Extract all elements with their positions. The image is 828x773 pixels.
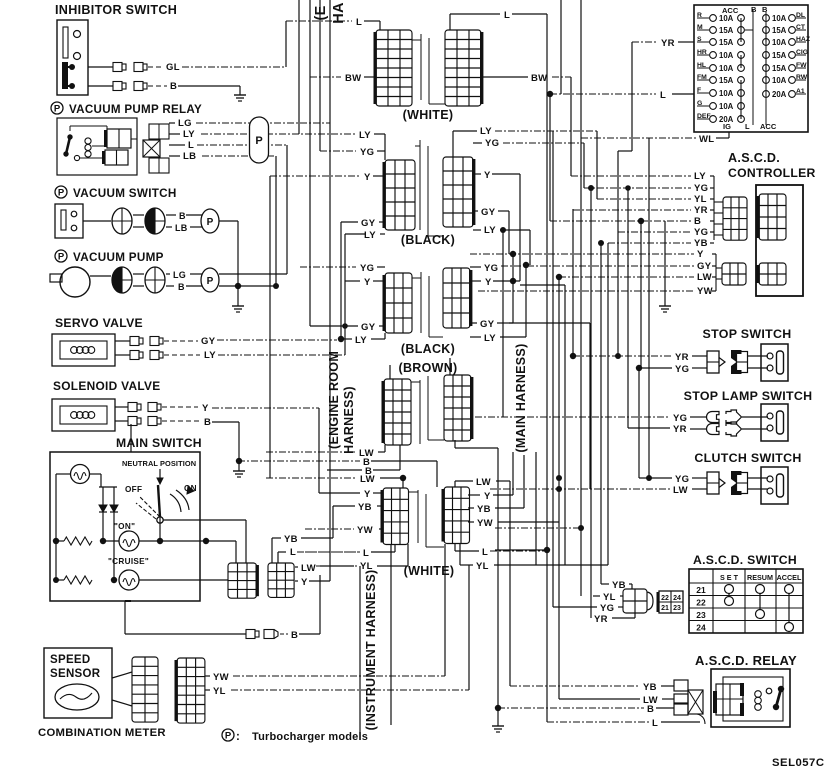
riser x565 to YLrow bbox=[520, 285, 565, 565]
ASCD controller grid top bbox=[757, 194, 787, 240]
svg-text:(E: (E bbox=[313, 5, 329, 20]
svg-text:IG: IG bbox=[723, 122, 731, 131]
wire YG stop lamp switch bbox=[475, 413, 768, 424]
svg-text:(ENGINE ROOM: (ENGINE ROOM bbox=[327, 351, 341, 449]
riser x561 top to Lfuse bbox=[560, 0, 562, 94]
svg-text:VACUUM PUMP RELAY: VACUUM PUMP RELAY bbox=[69, 103, 202, 116]
svg-text:GY: GY bbox=[361, 322, 376, 333]
svg-text:10A: 10A bbox=[772, 14, 787, 23]
svg-text:LG: LG bbox=[178, 118, 192, 129]
fuse box bbox=[694, 5, 810, 132]
svg-text:YG: YG bbox=[673, 413, 687, 424]
svg-text:GY: GY bbox=[201, 336, 216, 347]
P circle vacuum switch bbox=[201, 209, 219, 233]
vacuum pump relay connector bbox=[143, 124, 169, 173]
svg-text:Y: Y bbox=[364, 172, 371, 183]
connector grid (BLACK)1 right bbox=[443, 157, 475, 227]
svg-text:(BLACK): (BLACK) bbox=[401, 342, 455, 356]
svg-text:L: L bbox=[356, 17, 362, 28]
wire flank instrument-harness left bbox=[359, 566, 361, 740]
svg-text:21: 21 bbox=[661, 605, 669, 612]
label SOLENOID VALVE bbox=[53, 379, 160, 393]
svg-text:YW: YW bbox=[213, 672, 229, 683]
svg-text:YB: YB bbox=[284, 534, 298, 545]
wire servo-LY riser bbox=[344, 281, 346, 355]
label STOP SWITCH bbox=[703, 327, 792, 341]
svg-text:LY: LY bbox=[183, 129, 195, 140]
wire BROWN right grid top stub bbox=[449, 358, 451, 375]
svg-text:MAIN SWITCH: MAIN SWITCH bbox=[116, 436, 202, 450]
label ON lamp bbox=[114, 522, 135, 531]
svg-text:L: L bbox=[290, 547, 296, 558]
riser LW x559 bbox=[556, 274, 562, 699]
wire lever to connector bbox=[160, 517, 246, 563]
wire LB relay bbox=[169, 151, 276, 162]
vacuum pump relay K1 box bbox=[57, 118, 137, 175]
svg-text:LY: LY bbox=[694, 171, 706, 182]
wire top L riser bbox=[546, 14, 548, 550]
svg-text:LW: LW bbox=[360, 474, 375, 485]
ASCD relay K2 box bbox=[711, 669, 790, 727]
wire riser Y-ms bbox=[329, 470, 331, 581]
svg-text:Y: Y bbox=[484, 170, 491, 181]
wire GY black1 left bbox=[341, 218, 385, 229]
svg-text:A.S.C.D.: A.S.C.D. bbox=[728, 151, 780, 165]
wire YB white2 right bbox=[468, 455, 524, 515]
wire BW left bbox=[310, 73, 376, 84]
svg-text:CONTROLLER: CONTROLLER bbox=[728, 166, 816, 180]
wire YW meter bbox=[205, 544, 445, 683]
svg-text:23: 23 bbox=[673, 605, 681, 612]
harness label INSTRUMENT bbox=[364, 570, 378, 731]
wire YR bend bbox=[615, 151, 632, 359]
svg-text:NEUTRAL POSITION: NEUTRAL POSITION bbox=[122, 459, 196, 468]
svg-text:YG: YG bbox=[694, 227, 708, 238]
wire LY black1 label-left bbox=[359, 130, 385, 160]
wire B ascd relay bbox=[495, 704, 674, 715]
ground G3 (solenoid B) bbox=[233, 462, 245, 477]
svg-text:YL: YL bbox=[213, 686, 226, 697]
riser x536 flank bbox=[535, 452, 537, 565]
label (WHITE) bottom bbox=[404, 564, 455, 578]
wire YG black1 left bbox=[320, 147, 385, 158]
connector grid main-switch right bbox=[268, 563, 294, 597]
svg-text:YG: YG bbox=[485, 138, 499, 149]
svg-text:21: 21 bbox=[696, 585, 706, 595]
svg-text:15A: 15A bbox=[719, 26, 734, 35]
svg-text:22: 22 bbox=[696, 598, 706, 608]
svg-text:15A: 15A bbox=[719, 38, 734, 47]
svg-text:L: L bbox=[504, 10, 510, 21]
svg-text:L: L bbox=[745, 122, 750, 131]
wire YG black1 right bbox=[473, 138, 584, 149]
svg-text:LY: LY bbox=[364, 230, 376, 241]
wire Y solenoid bbox=[115, 403, 319, 415]
svg-text:B: B bbox=[179, 211, 186, 221]
wire LW brown 2 bbox=[266, 474, 406, 488]
label SPEED SENSOR box bbox=[44, 648, 112, 718]
wire GY black2 right bbox=[470, 319, 513, 330]
wire LW main-switch bbox=[295, 563, 354, 574]
svg-text:A.S.C.D. SWITCH: A.S.C.D. SWITCH bbox=[693, 553, 797, 567]
svg-text:YW: YW bbox=[477, 518, 493, 529]
wire YB white2 left bbox=[333, 502, 383, 513]
main switch lever bbox=[136, 485, 194, 523]
label VACUUM SWITCH bbox=[55, 186, 177, 200]
svg-text:YG: YG bbox=[360, 263, 374, 274]
connector grid (BLACK)2 right bbox=[443, 268, 472, 328]
svg-text:SOLENOID VALVE: SOLENOID VALVE bbox=[53, 379, 160, 393]
vacuum pump connectors bbox=[112, 267, 165, 293]
wire B from inhibitor switch to ground bbox=[88, 81, 240, 92]
wire B riser + ground bbox=[455, 440, 498, 708]
wire riser GY1-LY2 bbox=[340, 222, 342, 339]
svg-text:LY: LY bbox=[480, 126, 492, 137]
svg-text:"ON": "ON" bbox=[114, 522, 135, 531]
svg-text:S E T: S E T bbox=[720, 573, 739, 582]
wire YW white2 left bbox=[305, 525, 383, 536]
main switch left wiring bbox=[53, 474, 118, 583]
wire LB vacuum switch bbox=[133, 223, 204, 233]
wire YL ascd switch bbox=[593, 592, 623, 603]
wire YW white2 right bbox=[468, 518, 559, 529]
svg-text:Y: Y bbox=[364, 489, 371, 500]
wire Y black1 right bbox=[473, 170, 520, 281]
label ASCD SWITCH bbox=[693, 553, 797, 567]
lamp CRUISE bbox=[119, 570, 139, 590]
wire LY relay bbox=[169, 129, 356, 140]
junction dot pump B / switch B bbox=[219, 283, 279, 289]
clutch switch SW5 bbox=[707, 467, 788, 504]
lamp ON bbox=[119, 531, 139, 551]
riser x553 LY to ascd YG bbox=[552, 131, 554, 607]
svg-text:YR: YR bbox=[594, 614, 608, 625]
stop switch SW3 bbox=[707, 344, 788, 381]
svg-text:LY: LY bbox=[484, 333, 496, 344]
ground G5 (bottom center) bbox=[492, 708, 504, 732]
wire B brown 2 bbox=[327, 445, 400, 477]
svg-text:YG: YG bbox=[675, 474, 689, 485]
wire sensor to meter bbox=[112, 672, 132, 706]
svg-text:B: B bbox=[762, 5, 768, 14]
svg-text:YW: YW bbox=[697, 286, 713, 297]
svg-text:15A: 15A bbox=[772, 51, 787, 60]
label NEUTRAL POSITION bbox=[122, 459, 196, 468]
wires to ASCD controller upper (LY YG YL YR B YG YB) bbox=[550, 171, 723, 249]
svg-text:L: L bbox=[363, 548, 369, 559]
wire GY black2 left bbox=[310, 322, 385, 333]
svg-text:B: B bbox=[170, 81, 177, 92]
riser x590 GY2right to clutchLW bbox=[509, 323, 590, 489]
svg-text:GY: GY bbox=[480, 319, 495, 330]
wire L-fuse riser bbox=[549, 94, 551, 221]
riser YL x597 bbox=[596, 131, 598, 199]
wire YG clutch switch bbox=[639, 368, 768, 485]
wire B vacuum pump bbox=[133, 282, 204, 292]
label COMBINATION METER bbox=[38, 727, 166, 739]
wire LW white2 right bbox=[455, 477, 510, 488]
svg-text:BW: BW bbox=[345, 73, 361, 84]
wire YR stop switch bbox=[570, 352, 768, 363]
P capsule (turbo) on relay wires bbox=[250, 117, 269, 163]
connector grid (BLACK)2 left bbox=[383, 273, 413, 333]
svg-text:RESUM: RESUM bbox=[747, 573, 773, 582]
connector grid main-switch left bbox=[228, 563, 259, 598]
servo valve box bbox=[52, 334, 115, 366]
svg-text:Y: Y bbox=[202, 403, 209, 414]
ASCD controller box U1 bbox=[756, 185, 803, 296]
wire Y black2 right bbox=[470, 277, 520, 288]
svg-text:Turbocharger models: Turbocharger models bbox=[252, 731, 368, 743]
wire BW-right riser bbox=[570, 77, 572, 176]
wire L top-right bbox=[450, 10, 547, 30]
svg-text:ACC: ACC bbox=[722, 6, 739, 15]
svg-text:P: P bbox=[207, 276, 214, 287]
svg-text:B: B bbox=[291, 630, 298, 641]
wire Y black1 left bbox=[270, 172, 385, 183]
svg-text:GL: GL bbox=[166, 62, 180, 73]
svg-text:LW: LW bbox=[697, 272, 712, 283]
riser GY x526 bbox=[523, 262, 529, 337]
svg-text:YG: YG bbox=[694, 183, 708, 194]
svg-text:B: B bbox=[751, 5, 757, 14]
wire YR ascd switch bbox=[594, 613, 635, 625]
svg-text:YR: YR bbox=[694, 205, 708, 216]
junction dot B row bbox=[236, 458, 242, 464]
svg-text:LY: LY bbox=[204, 350, 216, 361]
wire YG stop switch bbox=[636, 364, 768, 375]
riser Y x513 bbox=[510, 251, 516, 323]
svg-text:10A: 10A bbox=[719, 64, 734, 73]
wire YR stop lamp switch bbox=[628, 424, 768, 435]
svg-text:YR: YR bbox=[675, 352, 689, 363]
riser YG2 x584 bbox=[583, 143, 585, 188]
wire L row to riser bbox=[495, 549, 547, 551]
svg-text:YB: YB bbox=[643, 682, 657, 693]
label VACUUM PUMP RELAY bbox=[51, 102, 202, 116]
svg-text:VACUUM PUMP: VACUUM PUMP bbox=[73, 251, 164, 264]
wire LW ascd relay bbox=[559, 695, 674, 706]
wire vacuum switch to ground bus bbox=[219, 221, 238, 285]
svg-text:YL: YL bbox=[694, 194, 707, 205]
wire flank instrument-harness right bbox=[390, 544, 392, 725]
inhibitor switch SW1 bbox=[57, 20, 88, 95]
wire riser into box top bbox=[130, 424, 132, 452]
svg-text:LY: LY bbox=[484, 225, 496, 236]
svg-text:15A: 15A bbox=[772, 64, 787, 73]
wire pump LG to relay-L riser bbox=[219, 273, 287, 275]
svg-text:10A: 10A bbox=[719, 14, 734, 23]
svg-text:10A: 10A bbox=[719, 51, 734, 60]
label (BROWN) bbox=[398, 361, 457, 375]
wire YR fuse bbox=[632, 38, 694, 151]
wire L white2 right bbox=[455, 544, 547, 558]
wire L top-left bbox=[286, 17, 380, 30]
svg-text:B: B bbox=[178, 282, 185, 292]
svg-text:20A: 20A bbox=[772, 90, 787, 99]
svg-text:10A: 10A bbox=[719, 89, 734, 98]
vacuum switch SW2 box bbox=[55, 204, 83, 238]
speed sensor symbol bbox=[55, 684, 99, 710]
wire YB ascd switch bbox=[601, 580, 632, 591]
svg-text:P: P bbox=[58, 252, 65, 263]
wire B to ground bbox=[638, 218, 665, 297]
connector grid (BROWN) right bbox=[444, 375, 473, 441]
riser B-YG x641 bbox=[640, 221, 642, 368]
svg-text:COMBINATION METER: COMBINATION METER bbox=[38, 727, 166, 739]
wire L fuse bbox=[547, 90, 694, 101]
label CRUISE bbox=[108, 557, 149, 566]
connector grid (BROWN) left bbox=[382, 379, 412, 445]
svg-text:B: B bbox=[694, 216, 701, 227]
svg-text:STOP SWITCH: STOP SWITCH bbox=[703, 327, 792, 341]
svg-text:ACCEL: ACCEL bbox=[777, 573, 802, 582]
svg-text:A.S.C.D. RELAY: A.S.C.D. RELAY bbox=[695, 653, 797, 668]
ASCD switch pin table bbox=[657, 591, 684, 613]
wire LG relay bbox=[169, 118, 330, 129]
label STOP LAMP SWITCH bbox=[684, 389, 813, 403]
svg-text:LW: LW bbox=[673, 485, 688, 496]
svg-text:P: P bbox=[58, 188, 65, 199]
svg-text:L: L bbox=[188, 140, 194, 151]
label MAIN SWITCH bbox=[116, 436, 202, 450]
ground G2 (vacuum pump) bbox=[232, 286, 244, 312]
wire GY black1 right bbox=[473, 207, 509, 254]
svg-text:LG: LG bbox=[173, 270, 186, 280]
wire LY black1 right bbox=[453, 126, 597, 157]
harness label MAIN HARNESS bbox=[514, 343, 528, 452]
connector grid combination meter right bbox=[175, 658, 205, 723]
label SERVO VALVE bbox=[55, 316, 143, 330]
svg-text:LW: LW bbox=[301, 563, 316, 574]
wire LG vacuum pump bbox=[90, 270, 204, 280]
riser x649 WL bbox=[646, 138, 652, 481]
svg-text:VACUUM SWITCH: VACUUM SWITCH bbox=[73, 187, 177, 200]
wire lamp ON row bbox=[102, 538, 236, 563]
wire B vacuum switch bbox=[83, 211, 204, 221]
svg-text:SEL057C: SEL057C bbox=[772, 757, 824, 769]
svg-text:(WHITE): (WHITE) bbox=[404, 564, 455, 578]
svg-text:STOP LAMP SWITCH: STOP LAMP SWITCH bbox=[684, 389, 813, 403]
vertical harness fragment (E bbox=[313, 5, 329, 20]
svg-text:L: L bbox=[660, 90, 666, 101]
svg-text:10A: 10A bbox=[772, 38, 787, 47]
label (BLACK) 2 bbox=[401, 342, 455, 356]
svg-text:GY: GY bbox=[697, 261, 712, 272]
wire B bottom bbox=[125, 575, 320, 641]
wire riser x330 from top (relay LG) bbox=[329, 0, 331, 470]
riser YR x573 bbox=[572, 209, 574, 356]
svg-text:B: B bbox=[647, 704, 654, 715]
wire Y black2 left bbox=[345, 277, 385, 288]
wire YB ascd relay bbox=[510, 682, 674, 693]
ground G1 (inhibitor B) bbox=[234, 86, 246, 101]
wire LY black1 right low bbox=[473, 225, 530, 265]
connector grid (WHITE)2 left bbox=[381, 488, 409, 545]
connector grid (WHITE)2 right bbox=[442, 487, 470, 544]
svg-text:ACC: ACC bbox=[760, 122, 777, 131]
svg-text:(WHITE): (WHITE) bbox=[403, 108, 454, 122]
svg-text:HARNESS): HARNESS) bbox=[342, 386, 356, 454]
svg-text:YB: YB bbox=[694, 238, 708, 249]
label ON top bbox=[184, 484, 197, 493]
svg-text:YG: YG bbox=[600, 603, 614, 614]
wire L relay bbox=[169, 140, 287, 151]
svg-text:24: 24 bbox=[696, 623, 706, 633]
label (WHITE) top bbox=[403, 108, 454, 122]
wire WL bbox=[581, 132, 729, 145]
wire YG ascd switch bbox=[553, 603, 623, 614]
wire YL meter bbox=[205, 565, 469, 697]
wire YG black2 left bbox=[300, 263, 385, 274]
svg-text:LB: LB bbox=[175, 223, 188, 233]
neutral arrow bbox=[157, 469, 163, 484]
svg-text:LW: LW bbox=[476, 477, 491, 488]
svg-text:(INSTRUMENT HARNESS): (INSTRUMENT HARNESS) bbox=[364, 570, 378, 731]
ASCD switch table SW6 bbox=[689, 569, 803, 633]
svg-text:SENSOR: SENSOR bbox=[50, 668, 101, 680]
vertical harness fragment HA bbox=[331, 2, 347, 24]
riser x601 to ascd YB bbox=[598, 240, 604, 584]
svg-text:YG: YG bbox=[360, 147, 374, 158]
svg-text:B: B bbox=[204, 417, 211, 428]
svg-text:10A: 10A bbox=[719, 102, 734, 111]
riser YB x510 bbox=[509, 481, 511, 686]
svg-text:YG: YG bbox=[484, 263, 498, 274]
connector grid (WHITE) top left bbox=[374, 30, 413, 106]
svg-text:24: 24 bbox=[673, 595, 681, 602]
vacuum switch connectors bbox=[112, 208, 165, 234]
P circle vacuum pump bbox=[201, 268, 219, 292]
svg-text:Y: Y bbox=[301, 577, 308, 588]
svg-text:L: L bbox=[652, 718, 658, 729]
legend P turbocharger bbox=[222, 729, 368, 743]
label SEL057C bbox=[772, 757, 824, 769]
svg-text:OFF: OFF bbox=[125, 485, 142, 494]
svg-text:22: 22 bbox=[661, 595, 669, 602]
wire node GL riser bbox=[285, 21, 287, 67]
svg-text:Y: Y bbox=[484, 491, 491, 502]
wire YB main-switch bbox=[272, 506, 333, 563]
svg-text:BW: BW bbox=[531, 73, 547, 84]
wire relay-L riser to pump LG bbox=[286, 145, 288, 274]
wire B solenoid bbox=[115, 417, 239, 429]
wire YG riser from top bbox=[319, 0, 321, 151]
svg-text:YR: YR bbox=[661, 38, 675, 49]
ASCD switch connector bbox=[623, 589, 653, 613]
svg-text:P: P bbox=[255, 135, 262, 147]
wire YL white2 right bbox=[460, 544, 608, 572]
svg-text:INHIBITOR SWITCH: INHIBITOR SWITCH bbox=[55, 3, 177, 17]
ASCD relay connector bbox=[674, 680, 705, 724]
svg-text:YB: YB bbox=[358, 502, 372, 513]
wire Y white2 left bbox=[319, 489, 383, 500]
svg-text:LY: LY bbox=[359, 130, 371, 141]
wire BW right bbox=[481, 73, 571, 84]
label ASCD RELAY bbox=[695, 653, 797, 668]
wire BROWN left grid top stub bbox=[389, 365, 391, 379]
svg-text:P: P bbox=[225, 731, 232, 742]
riser YG-2 x618 lower bbox=[618, 231, 723, 233]
svg-text:YL: YL bbox=[603, 592, 616, 603]
svg-text:Y: Y bbox=[364, 277, 371, 288]
resistor R-on bbox=[64, 537, 92, 545]
wire GL from inhibitor switch bbox=[88, 62, 286, 73]
svg-text:15A: 15A bbox=[719, 76, 734, 85]
svg-text:WL: WL bbox=[699, 134, 714, 145]
wire GY servo bbox=[115, 336, 337, 347]
svg-text:SPEED: SPEED bbox=[50, 654, 91, 666]
